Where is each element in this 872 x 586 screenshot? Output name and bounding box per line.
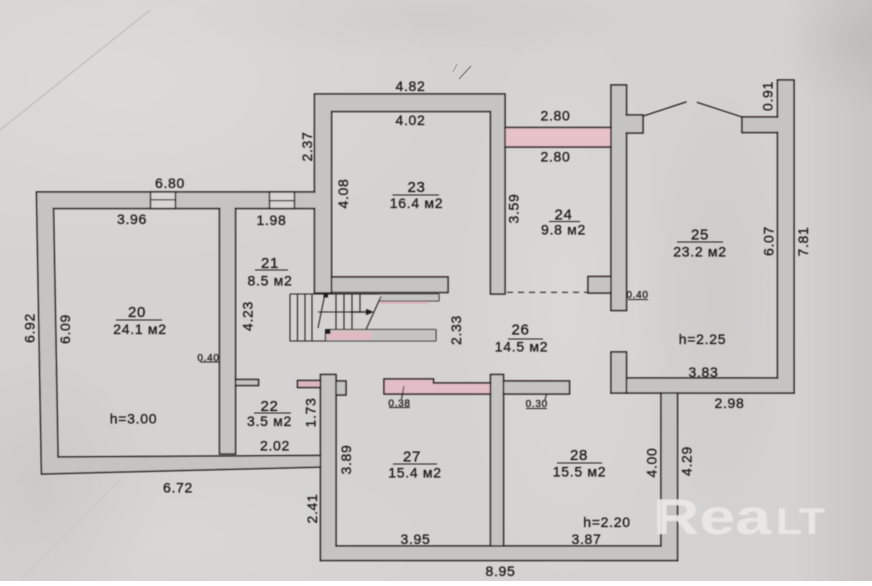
svg-text:26: 26 xyxy=(511,322,529,339)
svg-text:6.92: 6.92 xyxy=(22,313,38,343)
svg-text:4.08: 4.08 xyxy=(335,178,351,208)
svg-text:25: 25 xyxy=(691,227,709,244)
svg-text:20: 20 xyxy=(128,304,146,321)
svg-text:h=2.20: h=2.20 xyxy=(583,514,630,530)
svg-text:24.1 м2: 24.1 м2 xyxy=(113,321,166,337)
svg-text:0.30: 0.30 xyxy=(526,399,548,410)
svg-text:LT: LT xyxy=(776,501,825,542)
svg-text:1.73: 1.73 xyxy=(303,397,319,427)
svg-text:9.8 м2: 9.8 м2 xyxy=(541,222,586,238)
svg-text:h=3.00: h=3.00 xyxy=(110,411,157,427)
svg-text:8.95: 8.95 xyxy=(485,563,515,579)
svg-text:0.40: 0.40 xyxy=(197,353,219,364)
svg-text:3.89: 3.89 xyxy=(338,444,354,474)
svg-text:8.5 м2: 8.5 м2 xyxy=(248,273,293,289)
svg-text:3.87: 3.87 xyxy=(571,531,601,547)
svg-text:2.41: 2.41 xyxy=(304,493,320,523)
svg-text:3.95: 3.95 xyxy=(400,531,430,547)
svg-text:6.09: 6.09 xyxy=(57,314,73,344)
svg-text:h=2.25: h=2.25 xyxy=(679,331,726,347)
svg-text:6.07: 6.07 xyxy=(761,226,777,256)
svg-text:6.80: 6.80 xyxy=(155,175,185,191)
svg-text:4.02: 4.02 xyxy=(395,112,425,128)
svg-text:3.83: 3.83 xyxy=(688,364,718,380)
svg-text:23: 23 xyxy=(407,179,425,196)
svg-text:3.59: 3.59 xyxy=(506,193,522,223)
svg-text:2.80: 2.80 xyxy=(540,108,570,124)
svg-text:4.00: 4.00 xyxy=(644,447,660,477)
svg-text:2.33: 2.33 xyxy=(448,315,464,345)
svg-text:2.80: 2.80 xyxy=(540,149,570,165)
svg-text:1.98: 1.98 xyxy=(256,212,286,228)
svg-text:4.23: 4.23 xyxy=(240,301,256,331)
svg-text:4.82: 4.82 xyxy=(395,78,425,94)
svg-text:0.91: 0.91 xyxy=(760,81,776,111)
svg-text:6.72: 6.72 xyxy=(163,480,193,496)
svg-text:2.98: 2.98 xyxy=(714,395,744,411)
svg-text:23.2 м2: 23.2 м2 xyxy=(673,244,726,260)
svg-text:2.37: 2.37 xyxy=(299,131,315,161)
svg-text:15.4 м2: 15.4 м2 xyxy=(388,465,441,481)
svg-text:28: 28 xyxy=(570,447,588,464)
svg-text:27: 27 xyxy=(403,449,421,466)
svg-text:2.02: 2.02 xyxy=(260,438,290,454)
svg-text:15.5 м2: 15.5 м2 xyxy=(553,464,606,480)
svg-text:7.81: 7.81 xyxy=(795,226,811,256)
svg-text:14.5 м2: 14.5 м2 xyxy=(495,339,548,355)
svg-text:0.40: 0.40 xyxy=(626,290,648,301)
svg-text:Rea: Rea xyxy=(653,489,773,545)
svg-text:3.96: 3.96 xyxy=(117,211,147,227)
svg-text:4.29: 4.29 xyxy=(679,446,695,476)
svg-text:16.4 м2: 16.4 м2 xyxy=(390,195,443,211)
svg-text:3.5 м2: 3.5 м2 xyxy=(247,413,292,429)
svg-text:0.38: 0.38 xyxy=(388,399,410,410)
